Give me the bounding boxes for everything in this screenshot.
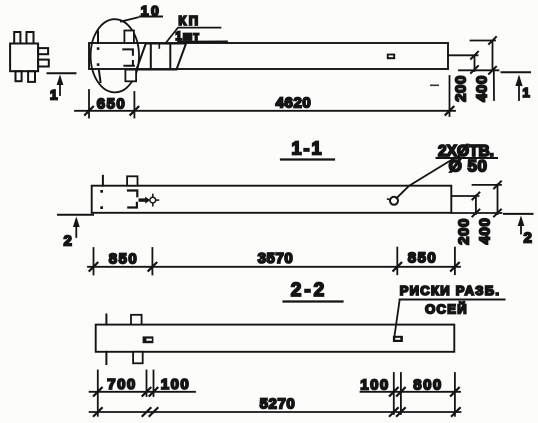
dim line 850/3570/850: [88, 266, 460, 268]
leader to riska mark: [395, 300, 400, 336]
svg-text:1: 1: [50, 88, 58, 103]
tick: [148, 263, 156, 271]
extension line right: [449, 76, 451, 116]
extension line mid: [133, 92, 135, 118]
tick: [397, 388, 405, 396]
extension line: [151, 248, 153, 275]
leader KP: [165, 28, 220, 44]
riska mark (axis mark): [393, 336, 403, 342]
overall dim line 5270: [90, 411, 461, 413]
hole axis leader (1-1): [451, 195, 478, 197]
extension line: [93, 248, 95, 275]
stray mark: [430, 85, 439, 87]
title 1-1: [281, 139, 334, 160]
anchor tab top (1-1): [127, 176, 137, 185]
extension line: [400, 373, 402, 414]
column body outline (plan): [89, 43, 448, 69]
plate edge tick below (2-2): [105, 352, 107, 364]
tab right-lower: [38, 60, 49, 67]
extension line: [146, 371, 148, 397]
plate mark near right end (plan): [387, 54, 395, 60]
svg-text:1: 1: [523, 85, 530, 100]
tab top-right: [27, 32, 34, 44]
extension line: [153, 371, 155, 397]
lifting hole: [390, 197, 398, 205]
dim line 700/100 (left segment): [90, 391, 195, 393]
anchor tab bottom (2-2): [133, 352, 143, 364]
title 2-2: [284, 280, 343, 302]
tick: [90, 263, 98, 271]
anchor dot upper (1-1): [100, 190, 103, 193]
tick: [143, 408, 151, 416]
svg-text:200: 200: [453, 75, 470, 102]
tick: [150, 408, 158, 416]
channel mark top (plan): [123, 49, 133, 54]
section mark 1 left: ground line: [48, 72, 76, 74]
extension line (to overall dim): [97, 371, 99, 416]
column body outline (section 2-2): [96, 325, 455, 352]
svg-text:700: 700: [107, 376, 137, 393]
svg-text:ОСЕЙ: ОСЕЙ: [425, 302, 468, 317]
svg-text:800: 800: [413, 377, 443, 394]
label 10: [140, 3, 162, 19]
svg-text:5270: 5270: [260, 396, 296, 413]
extension line (to overall dim): [454, 373, 456, 416]
svg-text:850: 850: [109, 251, 139, 268]
detail ellipse 10: [91, 19, 139, 92]
svg-text:1шт: 1шт: [175, 31, 200, 43]
svg-text:2: 2: [524, 230, 532, 247]
anchor tab top (2-2): [131, 315, 142, 325]
column section body: [10, 44, 38, 72]
section mark 1 right: ground line: [502, 71, 531, 73]
svg-text:100: 100: [161, 376, 191, 393]
column body outline (section 1-1): [92, 186, 452, 213]
svg-text:Ø 50: Ø 50: [449, 157, 488, 176]
channel mark bottom (plan): [124, 61, 134, 66]
tab bottom-left: [16, 71, 22, 81]
shelf 1шт: [178, 40, 227, 42]
dim line 650 / 4620: [75, 110, 455, 112]
tick: [446, 107, 454, 115]
embedded plate edge tick (plan, above): [97, 32, 99, 44]
tick: [471, 52, 478, 59]
section mark 1 left: arrow: [57, 75, 64, 96]
tab bottom-right: [28, 71, 35, 82]
tick: [452, 408, 460, 416]
svg-text:КП: КП: [178, 13, 200, 28]
tick: [494, 210, 501, 217]
svg-text:4620: 4620: [276, 95, 312, 112]
tick: [94, 388, 102, 396]
tick: [130, 107, 138, 115]
svg-text:200: 200: [455, 218, 472, 245]
svg-text:3570: 3570: [258, 250, 294, 267]
dim 400 line (1-1): [497, 185, 499, 215]
svg-text:400: 400: [474, 75, 491, 102]
extension line: [396, 248, 398, 275]
plate mark left (2-2): [143, 336, 154, 343]
dim 400 bottom reference (1-1): [451, 212, 501, 214]
extension line left: [88, 90, 90, 118]
label RISKI RAZB. OSEY: [400, 283, 505, 317]
section mark 1 right: arrow: [515, 75, 522, 101]
dim 400 bottom reference (plan): [459, 69, 499, 71]
svg-text:1-1: 1-1: [291, 139, 323, 159]
anchor tab top (plan): [124, 31, 133, 44]
leader to detail 10: [121, 17, 138, 21]
tab top-left: [14, 32, 20, 44]
section mark 2 left: ground line: [58, 214, 93, 216]
dim 400 top reference (plan): [471, 40, 496, 42]
tick: [94, 408, 102, 416]
tick: [143, 388, 151, 396]
channel bracket top (1-1): [128, 191, 137, 197]
plate edge tick above (2-2): [105, 315, 107, 325]
anchor tab bottom (plan): [125, 70, 136, 82]
hole axis leader (plan): [448, 54, 478, 56]
tick: [390, 408, 398, 416]
svg-text:2: 2: [64, 233, 72, 250]
dim 200 line (plan): [474, 55, 476, 71]
tick: [397, 408, 405, 416]
label 2xOTB: [437, 143, 498, 160]
tick: [489, 67, 496, 74]
dim 400 line (plan): [492, 41, 494, 71]
section mark 2 right: arrow: [518, 216, 525, 234]
dim line 100/800 (right segment): [361, 391, 461, 393]
svg-text:РИСКИ РАЗБ.: РИСКИ РАЗБ.: [400, 283, 501, 298]
tick: [393, 263, 401, 271]
section mark 2 right: ground line: [504, 213, 533, 215]
embedded plate edge tick (plan, below): [99, 71, 101, 82]
tick: [150, 388, 158, 396]
hole leader: [397, 158, 456, 199]
svg-text:850: 850: [408, 250, 438, 267]
dim 400 top reference (1-1): [473, 184, 502, 186]
tick: [472, 193, 479, 200]
svg-text:400: 400: [477, 218, 494, 245]
section mark 2 left: arrow: [73, 217, 80, 238]
console KP internal edge 2: [169, 44, 171, 70]
svg-text:2-2: 2-2: [291, 280, 327, 301]
tick: [494, 181, 501, 188]
tab right-upper: [38, 48, 48, 54]
tick: [85, 107, 93, 115]
tick: [451, 388, 459, 396]
plate edge tick (1-1): [102, 176, 104, 186]
tick: [451, 263, 459, 271]
tick: [471, 66, 478, 73]
extension line: [393, 373, 395, 414]
tick: [390, 388, 398, 396]
orientation arrow symbol: [140, 194, 158, 205]
channel bracket bottom (1-1): [128, 203, 137, 208]
tick: [472, 210, 479, 217]
anchor dot lower (1-1): [100, 206, 103, 209]
console KP small tick: [158, 44, 160, 48]
dim 200 line (1-1): [475, 196, 477, 215]
anchor dot upper: [97, 47, 100, 50]
console KP internal edge 1: [150, 44, 152, 70]
svg-text:650: 650: [97, 96, 127, 113]
tick: [489, 37, 496, 44]
anchor dot lower: [97, 63, 100, 66]
console KP parallelogram: [137, 44, 187, 70]
svg-text:100: 100: [360, 377, 390, 394]
extension line: [454, 248, 456, 275]
